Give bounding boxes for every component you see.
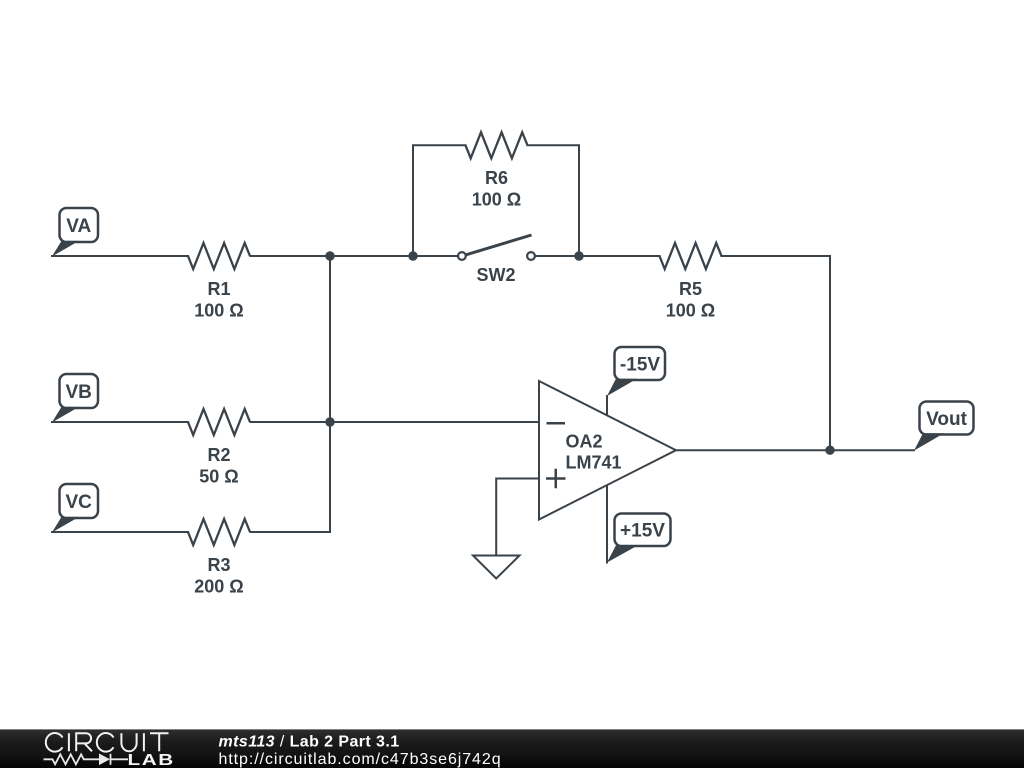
svg-text:LM741: LM741	[566, 453, 622, 473]
svg-text:mts113 / Lab 2 Part 3.1: mts113 / Lab 2 Part 3.1	[219, 734, 400, 751]
svg-text:R1: R1	[207, 279, 230, 299]
svg-text:R3: R3	[207, 555, 230, 575]
svg-text:VB: VB	[65, 382, 91, 403]
svg-text:Vout: Vout	[926, 409, 967, 430]
svg-text:50 Ω: 50 Ω	[199, 467, 238, 487]
svg-text:+15V: +15V	[620, 521, 665, 542]
svg-text:OA2: OA2	[566, 432, 603, 452]
svg-text:R2: R2	[207, 445, 230, 465]
svg-text:SW2: SW2	[476, 265, 515, 285]
svg-text:LAB: LAB	[128, 751, 175, 768]
svg-text:VC: VC	[65, 492, 92, 513]
svg-text:VA: VA	[66, 216, 91, 237]
svg-text:200 Ω: 200 Ω	[194, 577, 243, 597]
svg-text:100 Ω: 100 Ω	[472, 190, 521, 210]
svg-text:100 Ω: 100 Ω	[666, 301, 715, 321]
svg-text:R5: R5	[679, 279, 702, 299]
svg-text:R6: R6	[485, 168, 508, 188]
svg-text:-15V: -15V	[620, 355, 660, 376]
svg-text:100 Ω: 100 Ω	[194, 301, 243, 321]
svg-text:http://circuitlab.com/c47b3se6: http://circuitlab.com/c47b3se6j742q	[219, 751, 502, 768]
